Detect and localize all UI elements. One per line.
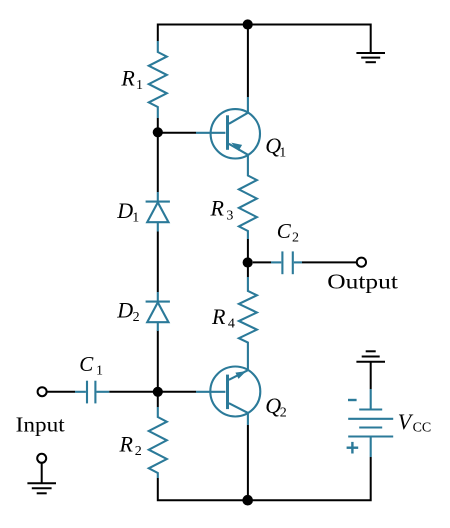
diode D1 (146, 192, 170, 232)
svg-text:Input: Input (16, 413, 65, 437)
label R1 (120, 66, 143, 94)
label VCC (398, 409, 431, 436)
ground top right (356, 53, 385, 62)
ground above battery (inverted) (356, 351, 385, 361)
svg-text:1: 1 (96, 364, 103, 379)
transistor Q1 (196, 97, 260, 159)
svg-text:2: 2 (280, 405, 287, 420)
wire R2 to bottom rail (158, 478, 248, 500)
transistor Q2 (196, 367, 260, 426)
input ground terminal (37, 454, 46, 463)
svg-text:C: C (277, 219, 292, 243)
svg-text:R: R (211, 304, 226, 329)
wire C2 to output terminal (302, 261, 357, 263)
wire D1 to D2 (157, 232, 159, 293)
battery plus sign (347, 442, 359, 454)
wire bottom rail right (248, 457, 371, 500)
label R4 (211, 304, 235, 332)
svg-text:3: 3 (226, 208, 233, 223)
label C2 (277, 219, 299, 246)
wire battery to ground (370, 362, 372, 389)
resistor R3 (239, 155, 257, 239)
wire R1 bottom to D1 (157, 118, 159, 192)
label D2 (116, 298, 139, 326)
svg-text:R: R (119, 431, 134, 456)
svg-text:C: C (79, 352, 94, 376)
svg-text:4: 4 (228, 317, 235, 332)
label R3 (210, 195, 234, 223)
wire D2 to input node (157, 331, 159, 408)
node input junction (153, 387, 163, 397)
resistor R2 (149, 407, 167, 478)
svg-text:2: 2 (292, 230, 299, 245)
label Q2 (265, 393, 287, 421)
svg-text:R: R (210, 195, 225, 220)
wire output node to R4 (247, 263, 249, 278)
svg-text:CC: CC (413, 421, 432, 436)
svg-text:Output: Output (327, 269, 398, 293)
resistor R4 (239, 277, 257, 370)
diode D2 (146, 292, 170, 331)
wire C1 to input node (109, 391, 158, 393)
wire input terminal to C1 (47, 391, 75, 393)
input ground (27, 463, 56, 494)
wire output node to C2 (253, 261, 271, 263)
battery minus sign (348, 399, 357, 401)
battery VCC (348, 389, 393, 457)
wire Q2 collector to bottom rail (247, 425, 249, 500)
wire Q1 collector to top rail (247, 25, 249, 98)
node top junction (243, 19, 253, 29)
wire Q2 base (162, 391, 196, 393)
svg-text:D: D (116, 198, 133, 223)
svg-text:2: 2 (133, 310, 140, 325)
capacitor C1 (75, 381, 109, 404)
wire Q1 base (162, 132, 196, 134)
svg-text:D: D (116, 298, 133, 323)
node bottom junction (242, 495, 253, 506)
input terminal (38, 387, 47, 396)
capacitor C2 (271, 251, 302, 274)
label R2 (119, 431, 142, 459)
node Q1 base / R1-D1 junction (153, 127, 163, 137)
label D1 (116, 198, 139, 226)
wire R3 to output node (247, 239, 249, 263)
svg-text:1: 1 (136, 78, 143, 93)
svg-text:2: 2 (135, 444, 142, 459)
svg-text:R: R (120, 66, 135, 91)
output terminal (357, 258, 366, 267)
label C1 (79, 352, 103, 379)
resistor R1 (149, 41, 167, 118)
wire top rail (158, 25, 371, 54)
label Q1 (265, 133, 286, 161)
node output junction (243, 257, 253, 267)
svg-text:1: 1 (279, 146, 286, 161)
svg-text:1: 1 (132, 211, 139, 226)
svg-text:V: V (398, 409, 414, 434)
